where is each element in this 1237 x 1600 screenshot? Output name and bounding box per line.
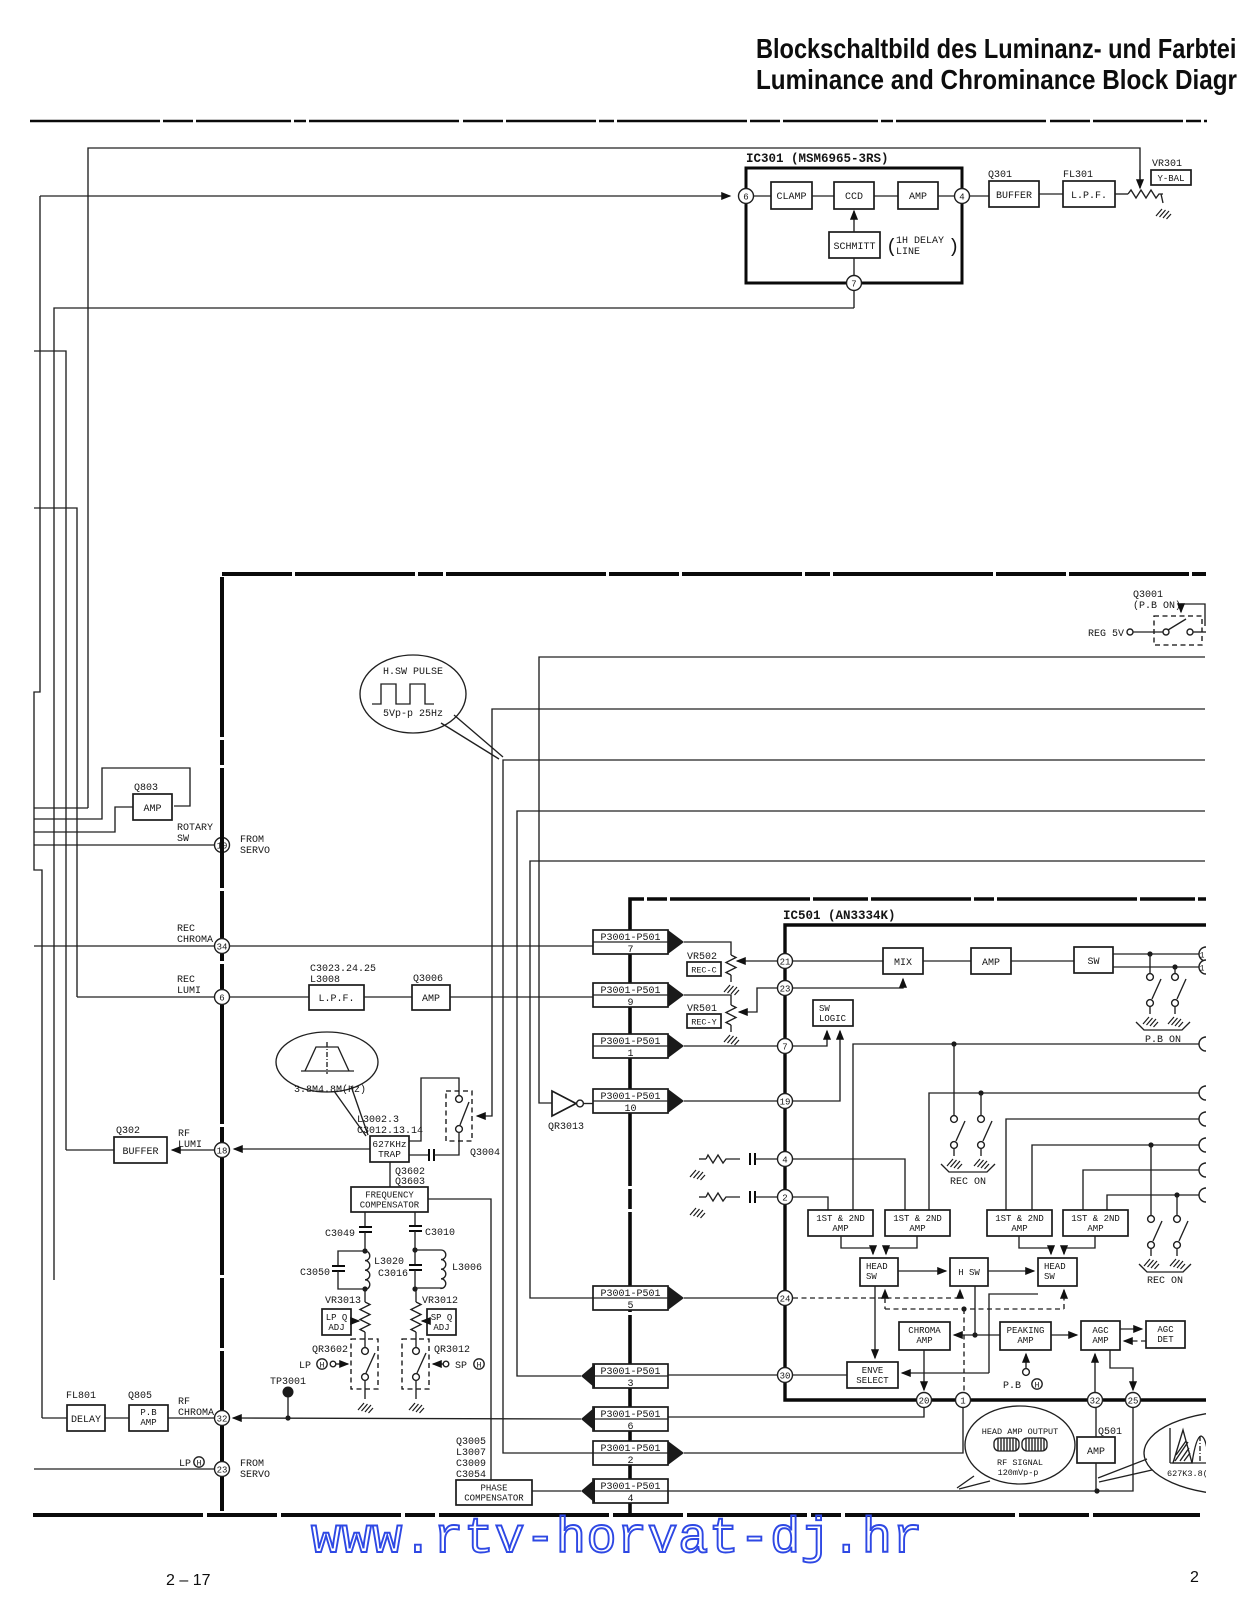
node 4 IC301 (955, 189, 970, 204)
svg-text:24: 24 (780, 1295, 791, 1305)
svg-text:3: 3 (627, 1379, 633, 1390)
svg-text:21: 21 (780, 958, 791, 968)
wire node 2 to amp1 (793, 1197, 828, 1210)
svg-text:Luminance and Chrominance Bloc: Luminance and Chrominance Block Diagram (756, 64, 1237, 95)
svg-text:C3009: C3009 (456, 1459, 486, 1470)
schmitt block (829, 232, 880, 258)
svg-text:REC ON: REC ON (1147, 1276, 1183, 1287)
svg-text:P3001-P501: P3001-P501 (600, 1037, 660, 1048)
svg-text:P3001-P501: P3001-P501 (600, 933, 660, 944)
svg-text:LUMI: LUMI (178, 1140, 202, 1151)
svg-text:RF SIGNAL: RF SIGNAL (997, 1458, 1043, 1468)
svg-text:2 – 17: 2 – 17 (166, 1572, 211, 1589)
IC301 box (746, 168, 962, 283)
svg-text:AMP: AMP (1092, 1336, 1108, 1346)
svg-text:Q3004: Q3004 (470, 1148, 500, 1159)
connector P3001-P501 pin 3 (593, 1364, 668, 1388)
svg-text:L3020: L3020 (374, 1257, 404, 1268)
wire conn10 to node 19 (684, 1100, 777, 1102)
svg-text:Q3005: Q3005 (456, 1437, 486, 1448)
wire phase comp to conn 4 (532, 1490, 581, 1492)
svg-text:C3050: C3050 (300, 1268, 330, 1279)
svg-text:C3010: C3010 (425, 1228, 455, 1239)
bottom chain line (33, 1513, 1200, 1517)
node 19 (215, 838, 230, 853)
wire line D (1032, 1145, 1199, 1210)
wire node 24 dashed control (793, 1297, 960, 1299)
wire agc to node 25 (1110, 1350, 1133, 1390)
svg-text:AMP: AMP (909, 1224, 925, 1234)
svg-text:H: H (1035, 1382, 1040, 1391)
svg-text:18: 18 (217, 1147, 228, 1157)
svg-text:AMP: AMP (982, 958, 1000, 969)
block enve select (847, 1362, 898, 1388)
node 32 (1088, 1393, 1103, 1408)
svg-text:AGC: AGC (1157, 1325, 1174, 1335)
svg-text:PEAKING: PEAKING (1007, 1326, 1045, 1336)
wire Q803 in b (34, 768, 190, 819)
svg-text:1ST & 2ND: 1ST & 2ND (995, 1214, 1044, 1224)
svg-text:Q805: Q805 (128, 1391, 152, 1402)
svg-text:REC ON: REC ON (950, 1177, 986, 1188)
svg-text:SP Q: SP Q (431, 1313, 453, 1323)
wire REC LUMI (node 6 row) (77, 996, 215, 998)
svg-text:1H DELAY: 1H DELAY (896, 236, 944, 247)
capacitor trap out (409, 1154, 429, 1156)
svg-text:AMP: AMP (1011, 1224, 1027, 1234)
svg-text:ENVE: ENVE (862, 1366, 884, 1376)
svg-text:AGC: AGC (1092, 1326, 1109, 1336)
svg-text:AMP: AMP (1087, 1224, 1103, 1234)
svg-text:DELAY: DELAY (71, 1415, 101, 1426)
IC501 box (785, 925, 1237, 1400)
node 19 IC501 (778, 1094, 793, 1109)
filter FL301 (1039, 193, 1063, 195)
ccd block (812, 195, 834, 197)
switch block SW (1011, 960, 1074, 962)
wire trap upper loop to Q3004 (409, 1078, 459, 1141)
svg-text:CHROMA: CHROMA (178, 1408, 214, 1419)
svg-text:COMPENSATOR: COMPENSATOR (464, 1494, 524, 1504)
transistor Q3006 amp (364, 996, 412, 998)
svg-text:Blockschaltbild des Luminanz-: Blockschaltbild des Luminanz- und Farbte… (756, 33, 1237, 64)
svg-text:4: 4 (627, 1494, 633, 1505)
svg-text:7: 7 (851, 280, 856, 290)
svg-text:P3001-P501: P3001-P501 (600, 1367, 660, 1378)
svg-text:P.B: P.B (1003, 1381, 1021, 1392)
svg-text:BUFFER: BUFFER (996, 191, 1032, 202)
svg-text:30: 30 (780, 1372, 791, 1382)
wire ROTARY SW to node 19 (34, 844, 215, 846)
svg-text:20: 20 (919, 1397, 930, 1407)
wire trap to freq comp (389, 1162, 391, 1187)
capacitor C3050 branch (338, 1251, 365, 1266)
svg-text:1: 1 (960, 1397, 965, 1407)
wire node7 return (y=308) (54, 308, 854, 1280)
svg-text:2: 2 (782, 1194, 787, 1204)
logic block SW LOGIC (813, 1000, 853, 1026)
connector P3001-P501 pin 1 (593, 1034, 668, 1058)
svg-text:L.P.F.: L.P.F. (1071, 191, 1107, 202)
rule under title (30, 120, 1207, 122)
connector P3001-P501 pin 10 (593, 1089, 668, 1113)
wire line E (1083, 1170, 1199, 1210)
svg-text:SCHMITT: SCHMITT (833, 242, 875, 253)
wire REC/PB line B (929, 1093, 1199, 1210)
amp block (923, 960, 971, 962)
svg-text:L3006: L3006 (452, 1263, 482, 1274)
svg-text:Y-BAL: Y-BAL (1157, 174, 1184, 184)
svg-text:HEAD: HEAD (866, 1262, 888, 1272)
svg-text:P3001-P501: P3001-P501 (600, 1444, 660, 1455)
wire node 4 to amp2 (793, 1159, 905, 1210)
svg-text:P.B: P.B (140, 1408, 157, 1418)
svg-text:6: 6 (219, 994, 224, 1004)
svg-text:TP3001: TP3001 (270, 1377, 306, 1388)
svg-text:AMP: AMP (143, 804, 161, 815)
wire conn6 to node 20 (668, 1408, 924, 1417)
svg-text:6: 6 (743, 193, 748, 203)
svg-text:P3001-P501: P3001-P501 (600, 1092, 660, 1103)
svg-text:120mVp-p: 120mVp-p (998, 1468, 1039, 1478)
svg-text:DET: DET (1157, 1335, 1174, 1345)
node 1 (956, 1393, 971, 1408)
svg-text:L3007: L3007 (456, 1448, 486, 1459)
wire head sw1 to enve select (874, 1286, 876, 1358)
switch PB pair (1149, 954, 1151, 973)
svg-text:1: 1 (1200, 965, 1205, 974)
svg-text:Q3006: Q3006 (413, 974, 443, 985)
svg-text:SELECT: SELECT (856, 1376, 889, 1386)
wire long 1 (to QR3013) (539, 657, 1205, 1103)
node 24 (778, 1291, 793, 1306)
node 4 (778, 1152, 793, 1167)
amp 1st and 2nd #1 (808, 1210, 873, 1236)
wire conn4 to node 25 (668, 1408, 1133, 1491)
transistor Q803 (133, 794, 172, 820)
svg-text:REG 5V: REG 5V (1088, 629, 1124, 640)
wire long 4 (to conn 3) (517, 811, 1205, 1376)
node 34 (215, 939, 230, 954)
svg-text:MIX: MIX (894, 958, 912, 969)
wire agc amp to det (1120, 1328, 1142, 1330)
node junction right LC (412, 1247, 417, 1252)
wire schmitt to ccd (853, 211, 855, 232)
mixer MIX (793, 960, 883, 962)
node 23 left (215, 1462, 230, 1477)
wire conn1 to node 7 (684, 1045, 777, 1047)
block head sw 2 (1038, 1258, 1077, 1286)
svg-text:AMP: AMP (422, 994, 440, 1005)
node 32 left (215, 1411, 230, 1426)
resistor capacitor node 4 (690, 1170, 705, 1180)
capacitor C3010 (414, 1212, 416, 1226)
wire chroma amp to node 20 (923, 1350, 925, 1390)
node 30 (778, 1368, 793, 1383)
svg-text:SW: SW (819, 1004, 830, 1014)
wire stub y=508 (34, 508, 77, 997)
wire SW out upper (1113, 953, 1199, 955)
svg-text:RF: RF (178, 1129, 190, 1140)
wire amp4 to head sw2 (1064, 1236, 1095, 1254)
node 6 left (215, 990, 230, 1005)
svg-text:Q302: Q302 (116, 1126, 140, 1137)
svg-text:VR301: VR301 (1152, 159, 1182, 170)
svg-text:CHROMA: CHROMA (908, 1326, 941, 1336)
svg-text:CCD: CCD (845, 192, 863, 203)
wire conn2 to node 1 (684, 1408, 963, 1453)
wire RF chroma to conn 6 (233, 1418, 581, 1419)
node 7 (778, 1039, 793, 1054)
svg-text:CHROMA: CHROMA (177, 935, 213, 946)
svg-text:H SW: H SW (958, 1268, 980, 1278)
svg-text:VR3012: VR3012 (422, 1296, 458, 1307)
switch Q3004 (446, 1091, 472, 1141)
wire long 3 (to conn 2) (503, 760, 1205, 1453)
svg-text:23: 23 (217, 1466, 228, 1476)
svg-text:1ST & 2ND: 1ST & 2ND (893, 1214, 942, 1224)
svg-text:1ST & 2ND: 1ST & 2ND (1071, 1214, 1120, 1224)
connector P3001-P501 pin 7 (593, 930, 668, 954)
svg-text:AMP: AMP (1017, 1336, 1033, 1346)
svg-text:25: 25 (1128, 1397, 1139, 1407)
svg-text:23: 23 (780, 985, 791, 995)
svg-text:C3016: C3016 (378, 1269, 408, 1280)
wire node 23 from servo (34, 1468, 215, 1470)
inverter QR3013 (552, 1091, 576, 1116)
svg-text:ADJ: ADJ (433, 1323, 449, 1333)
svg-text:4: 4 (959, 193, 964, 203)
svg-text:IC301 (MSM6965-3RS): IC301 (MSM6965-3RS) (746, 152, 889, 166)
svg-text:SERVO: SERVO (240, 1470, 270, 1481)
svg-text:): ) (948, 236, 959, 258)
svg-text:COMPENSATOR: COMPENSATOR (360, 1201, 420, 1211)
node 18 (215, 1143, 230, 1158)
clamp block (753, 195, 771, 197)
connector P3001-P501 pin 2 (593, 1441, 668, 1465)
wire head sw2 to enve select (989, 1294, 1038, 1373)
wire head sw1 to h sw (898, 1270, 946, 1272)
svg-text:SP: SP (455, 1361, 467, 1372)
svg-text:7: 7 (627, 945, 633, 956)
svg-text:LP: LP (179, 1459, 191, 1470)
svg-text:BUFFER: BUFFER (122, 1147, 158, 1158)
wire h sw down to chroma/peaking (974, 1286, 976, 1335)
svg-text:SW: SW (1044, 1272, 1055, 1282)
wire node 32 to agc amp (1094, 1354, 1096, 1392)
svg-text:ROTARY: ROTARY (177, 823, 213, 834)
svg-text:1: 1 (1200, 952, 1205, 961)
svg-text:34: 34 (217, 943, 228, 953)
brace P.B ON (1136, 1022, 1190, 1030)
svg-text:1ST & 2ND: 1ST & 2ND (816, 1214, 865, 1224)
wire amp1 to head sw1 (841, 1236, 873, 1254)
wire freq comp out to phase comp (428, 1199, 491, 1480)
wire REC CHROMA (node 34 row) (34, 945, 215, 947)
svg-text:REC: REC (177, 924, 195, 935)
svg-text:FREQUENCY: FREQUENCY (365, 1191, 414, 1201)
wire stub y=351 (34, 351, 66, 1150)
page cut margin (1206, 130, 1237, 1600)
wire conn3 to node 30 (668, 1374, 777, 1376)
svg-text:FROM: FROM (240, 835, 264, 846)
connector P3001-P501 pin 9 (593, 983, 668, 1007)
node 2 (778, 1190, 793, 1205)
svg-text:ADJ: ADJ (328, 1323, 344, 1333)
wire conn5 to node 24 (684, 1297, 777, 1299)
svg-text:AMP: AMP (1087, 1447, 1105, 1458)
wire long 2 (to Q3004) (477, 709, 1205, 1116)
svg-text:SW: SW (177, 834, 189, 845)
P.B H control of peaking (1025, 1354, 1027, 1368)
svg-text:SW: SW (866, 1272, 877, 1282)
svg-text:Q3001: Q3001 (1133, 590, 1163, 601)
transistor Q301 buffer (969, 195, 989, 197)
block peaking amp (1000, 1322, 1051, 1350)
SP H input (443, 1361, 449, 1367)
wire conn9 to VR501 (684, 995, 731, 1005)
svg-text:RF: RF (178, 1397, 190, 1408)
svg-text:C3023.24.25: C3023.24.25 (310, 964, 376, 975)
transistor Q302 buffer (66, 1149, 114, 1151)
svg-text:L3002.3: L3002.3 (357, 1115, 399, 1126)
filter L.P.F. C3023 (229, 996, 309, 998)
wire Q803 in c (34, 807, 133, 832)
svg-text:32: 32 (1090, 1397, 1101, 1407)
potentiometer VR301 (1115, 193, 1128, 195)
svg-text:HEAD: HEAD (1044, 1262, 1066, 1272)
svg-text:PHASE: PHASE (480, 1484, 507, 1494)
svg-text:P3001-P501: P3001-P501 (600, 1482, 660, 1493)
connector P3001-P501 pin 5 (593, 1286, 668, 1310)
block agc det (1146, 1321, 1185, 1348)
node 21 (778, 954, 793, 969)
resistor capacitor node 2 (690, 1208, 705, 1218)
svg-text:FROM: FROM (240, 1459, 264, 1470)
svg-text:P3001-P501: P3001-P501 (600, 986, 660, 997)
svg-text:SW: SW (1087, 957, 1099, 968)
svg-text:LP: LP (299, 1361, 311, 1372)
connector chain line (630, 899, 1237, 1513)
wire amp2 to head sw1 (886, 1236, 917, 1254)
svg-text:19: 19 (780, 1098, 791, 1108)
wire node 7 to SW logic (793, 1031, 827, 1046)
svg-text:3.8M4.8M(Hz): 3.8M4.8M(Hz) (294, 1084, 366, 1096)
svg-text:LUMI: LUMI (177, 986, 201, 997)
capacitor C3016 (414, 1250, 416, 1265)
amp 1st and 2nd #3 (987, 1210, 1052, 1236)
wire video in to IC301 node 6 (y=196) (34, 196, 42, 1418)
wire node 19 to SW logic (793, 1031, 840, 1101)
wire node 23 to MIX bottom (793, 979, 903, 988)
wire amp3 to head sw2 (1019, 1236, 1051, 1254)
balloon H.SW PULSE (360, 655, 466, 733)
svg-text:REC-Y: REC-Y (691, 1018, 717, 1028)
svg-text:FL801: FL801 (66, 1391, 96, 1402)
svg-text:C3049: C3049 (325, 1229, 355, 1240)
wire trap to node 18 (234, 1148, 370, 1150)
connector P3001-P501 pin 6 (593, 1407, 668, 1431)
svg-text:H: H (320, 1362, 325, 1371)
svg-text:Q803: Q803 (134, 783, 158, 794)
svg-text:7: 7 (782, 1043, 787, 1053)
svg-text:HEAD AMP OUTPUT: HEAD AMP OUTPUT (982, 1427, 1059, 1437)
svg-text:LP Q: LP Q (326, 1313, 348, 1323)
connector P3001-P501 pin 4 (593, 1479, 668, 1503)
svg-text:FL301: FL301 (1063, 170, 1093, 181)
balloon 3.8M4.8M (276, 1032, 378, 1092)
node 7 IC301 (853, 258, 855, 276)
svg-text:L.P.F.: L.P.F. (318, 994, 354, 1005)
node junction left LC (362, 1248, 367, 1253)
wire Q803 in a (34, 807, 88, 809)
svg-text:IC501 (AN3334K): IC501 (AN3334K) (783, 909, 896, 923)
svg-text:SERVO: SERVO (240, 846, 270, 857)
svg-text:REC: REC (177, 975, 195, 986)
balloon head amp output (965, 1406, 1075, 1484)
svg-text:AMP: AMP (916, 1336, 932, 1346)
svg-text:QR3013: QR3013 (548, 1122, 584, 1133)
svg-text:4: 4 (782, 1156, 787, 1166)
wire top feedback Y (y=148) (88, 148, 1140, 808)
block h sw (950, 1258, 988, 1286)
balloon 627K waveform (1144, 1411, 1237, 1495)
svg-text:H: H (197, 1460, 202, 1469)
amp block IC301 (874, 195, 898, 197)
svg-text:10: 10 (624, 1104, 636, 1115)
wire peaking to agc amp (1051, 1334, 1077, 1336)
svg-text:2: 2 (1190, 1569, 1199, 1586)
wire line F (1107, 1195, 1199, 1210)
svg-text:6: 6 (627, 1422, 633, 1433)
switch REC ON right pair (1150, 1145, 1152, 1215)
svg-text:5Vp-p 25Hz: 5Vp-p 25Hz (383, 709, 443, 720)
svg-text:VR3013: VR3013 (325, 1296, 361, 1307)
capacitor C3049 (364, 1212, 366, 1227)
svg-text:(: ( (886, 236, 897, 258)
svg-text:P3001-P501: P3001-P501 (600, 1410, 660, 1421)
svg-text:LINE: LINE (896, 247, 920, 258)
block head sw 1 (860, 1258, 898, 1286)
inductor L3020 (365, 1251, 370, 1289)
svg-text:(P.B ON): (P.B ON) (1133, 600, 1181, 612)
node 23 (778, 981, 793, 996)
node 20 (917, 1393, 932, 1408)
node 25 (1126, 1393, 1141, 1408)
svg-text:AMP: AMP (909, 192, 927, 203)
svg-text:5: 5 (627, 1301, 633, 1312)
amp 1st and 2nd #4 (1063, 1210, 1128, 1236)
svg-text:LOGIC: LOGIC (819, 1014, 847, 1024)
wire REC/PB line A (853, 1044, 1199, 1210)
svg-text:REC-C: REC-C (691, 966, 717, 976)
block chroma amp (899, 1322, 950, 1350)
svg-text:CLAMP: CLAMP (776, 192, 806, 203)
svg-text:P3001-P501: P3001-P501 (600, 1289, 660, 1300)
svg-text:2: 2 (627, 1456, 633, 1467)
svg-text:32: 32 (217, 1415, 228, 1425)
block frequency compensator (351, 1187, 428, 1212)
svg-text:TRAP: TRAP (378, 1149, 401, 1160)
svg-text:AMP: AMP (140, 1418, 156, 1428)
svg-text:H.SW PULSE: H.SW PULSE (383, 667, 443, 678)
svg-text:1: 1 (627, 1049, 633, 1060)
svg-text:AMP: AMP (832, 1224, 848, 1234)
wire h sw to head sw2 (988, 1270, 1034, 1272)
wire det to agc amp dashed (1124, 1340, 1146, 1342)
switch REC ON mid pair (953, 1044, 955, 1115)
wire line C (1006, 1119, 1199, 1210)
